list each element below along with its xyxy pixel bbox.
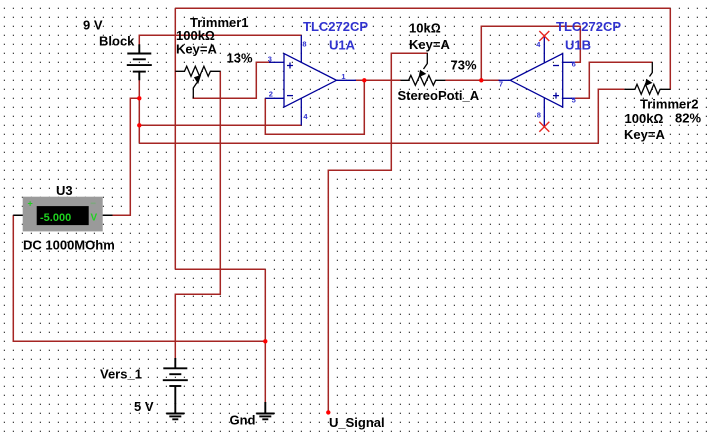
- svg-text:8: 8: [537, 110, 541, 119]
- junction battery negative lower: [137, 123, 141, 127]
- wire U1A pin2 feedback: [265, 80, 364, 134]
- svg-text:73%: 73%: [451, 58, 477, 73]
- svg-text:Trimmer2: Trimmer2: [640, 97, 699, 112]
- svg-text:82%: 82%: [675, 111, 701, 126]
- svg-text:U1B: U1B: [565, 38, 591, 53]
- ground Gnd: [256, 402, 274, 419]
- junction U1A output node: [362, 78, 366, 82]
- svg-text:StereoPoti_A: StereoPoti_A: [398, 88, 480, 103]
- svg-text:2: 2: [269, 89, 273, 98]
- multimeter U3: [13, 197, 112, 232]
- potentiometer Trimmer2: [624, 62, 670, 94]
- ground under Vers_1: [166, 403, 184, 419]
- wire ground vertical to Gnd symbol: [264, 269, 266, 403]
- svg-text:-5.000: -5.000: [40, 212, 71, 224]
- junction ground node at U3 plus: [263, 339, 267, 343]
- svg-text:1: 1: [341, 72, 345, 81]
- wire battery negative to U1A pin4: [139, 124, 301, 126]
- svg-text:5: 5: [572, 96, 576, 105]
- wire right side down to Trimmer2 right lead: [669, 8, 671, 89]
- junction U_Signal end: [326, 410, 330, 414]
- wire U1B pin5 to Trimmer2 wiper: [575, 62, 653, 98]
- wiper arrow StereoPoti_A: [419, 70, 427, 78]
- svg-text:U3: U3: [56, 183, 73, 198]
- svg-text:13%: 13%: [227, 51, 253, 66]
- svg-text:Block: Block: [99, 34, 135, 49]
- wire battery V1 top to U1A pin8: [139, 35, 301, 45]
- wiper arrow Trimmer1: [194, 75, 201, 84]
- wire top ground rail: [175, 7, 670, 9]
- svg-text:Key=A: Key=A: [176, 42, 217, 57]
- svg-text:Vers_1: Vers_1: [100, 367, 142, 382]
- svg-text:TLC272CP: TLC272CP: [303, 19, 368, 34]
- junction battery negative upper: [137, 96, 141, 100]
- svg-text:U_Signal: U_Signal: [329, 415, 385, 430]
- svg-text:V: V: [91, 213, 98, 224]
- battery V1 9V Block: [127, 44, 152, 80]
- wire Trimmer1 right lead to Vers_1 plus: [175, 71, 220, 358]
- op-amp U1B: [499, 36, 575, 127]
- no-connect X pin 8 U1B: [539, 122, 549, 132]
- potentiometer StereoPoti_A: [401, 53, 446, 85]
- wire StereoPoti_A right lead to U1B output: [445, 79, 499, 81]
- svg-text:Key=A: Key=A: [624, 127, 665, 142]
- svg-text:10kΩ: 10kΩ: [409, 21, 441, 36]
- wire Trimmer1 wiper to U1A pin3: [193, 62, 271, 98]
- junction U1B output node: [479, 78, 483, 82]
- wire U1B feedback loop: [481, 26, 580, 80]
- svg-text:DC 1000MOhm: DC 1000MOhm: [23, 238, 115, 253]
- wire U1A output to StereoPoti_A: [356, 79, 401, 81]
- svg-text:+: +: [28, 199, 33, 209]
- svg-text:6: 6: [572, 60, 576, 69]
- svg-text:7: 7: [499, 79, 503, 88]
- wire StereoPoti_A wiper to U_Signal: [328, 53, 427, 412]
- wiper arrow Trimmer2: [645, 79, 653, 87]
- svg-text:9 V: 9 V: [83, 18, 103, 33]
- wire U3 minus up to battery negative: [112, 98, 139, 215]
- wire ground jog horizontal: [175, 268, 265, 270]
- wire U3 plus to ground node: [13, 215, 265, 341]
- svg-text:5 V: 5 V: [134, 399, 154, 414]
- wire battery negative to Trimmer2 left lead: [139, 142, 598, 144]
- svg-text:8: 8: [302, 40, 306, 49]
- battery Vers_1: [163, 358, 188, 404]
- wire battery V1 bottom vertical: [138, 80, 140, 144]
- svg-text:U1A: U1A: [329, 38, 356, 53]
- svg-text:TLC272CP: TLC272CP: [556, 19, 621, 34]
- wire Trimmer2 left lead vertical: [598, 89, 624, 143]
- svg-text:3: 3: [268, 54, 272, 63]
- svg-text:Gnd: Gnd: [230, 413, 256, 428]
- svg-text:Key=A: Key=A: [409, 37, 450, 52]
- no-connect X pin 4 U1B: [539, 31, 549, 41]
- wire left vertical ground branch: [174, 8, 176, 269]
- op-amp U1A: [265, 35, 356, 125]
- potentiometer Trimmer1: [175, 66, 220, 98]
- svg-text:100kΩ: 100kΩ: [625, 111, 664, 126]
